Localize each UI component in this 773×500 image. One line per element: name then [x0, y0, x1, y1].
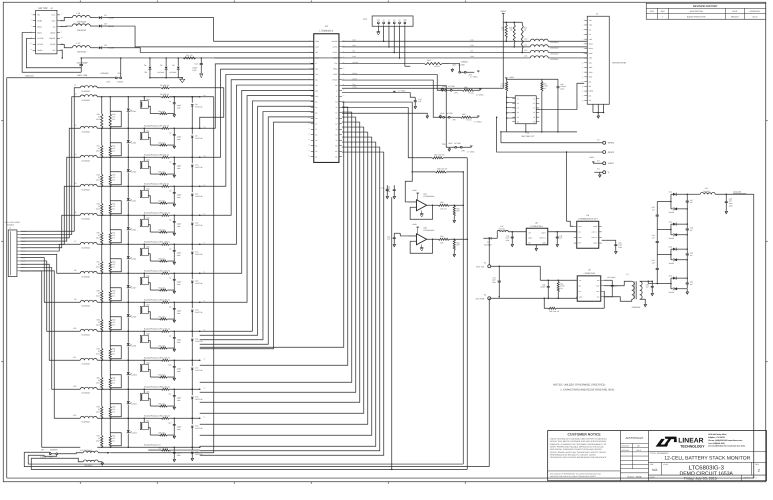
capacitor C9 100pF [169, 331, 181, 351]
svg-text:L10: L10 [73, 327, 76, 330]
svg-text:APPLICATION. COMPONENT SUBSTI: APPLICATION. COMPONENT SUBSTITUTION AND … [550, 448, 603, 451]
jumper JP3 VMODE [450, 60, 480, 78]
resistor R16 100 1% [160, 414, 200, 419]
svg-text:L4: L4 [74, 153, 76, 156]
resistor R56 33 2512 [96, 389, 103, 419]
resistor R49 33 2512 [96, 186, 103, 216]
svg-text:LTC6908IMS8-3.3 OPT: LTC6908IMS8-3.3 OPT [578, 217, 599, 220]
net labels on SPI bus [352, 38, 474, 58]
svg-text:21: 21 [308, 150, 310, 152]
svg-text:R32: R32 [434, 154, 437, 157]
svg-text:74476410: 74476410 [81, 275, 89, 278]
svg-text:2512: 2512 [96, 323, 100, 326]
svg-text:JP1: JP1 [117, 72, 120, 75]
diode D5 BAT46W [158, 57, 168, 78]
svg-text:E3: E3 [597, 159, 599, 162]
svg-text:R27 3.3k: R27 3.3k [158, 199, 165, 202]
svg-text:74476410: 74476410 [550, 58, 558, 61]
svg-text:R7 100 1%: R7 100 1% [160, 124, 169, 127]
svg-text:74476410: 74476410 [81, 130, 89, 133]
svg-text:6+ VREG: 6+ VREG [476, 93, 484, 96]
inductor L26 74476410 [31, 458, 102, 467]
svg-text:BAV99: BAV99 [669, 211, 674, 214]
svg-text:GND: GND [448, 142, 453, 145]
wire J2 CS to L16 [60, 25, 72, 28]
diode D1 RB521 [99, 14, 114, 20]
svg-text:1uF: 1uF [646, 286, 649, 289]
svg-text:~: ~ [46, 450, 47, 452]
svg-text:C20 100pF: C20 100pF [607, 276, 615, 279]
net label cell 5 [203, 212, 205, 215]
svg-text:D17: D17 [195, 366, 198, 369]
svg-text:2512: 2512 [96, 178, 100, 181]
svg-text:E6: E6 [484, 294, 486, 297]
wire gate loop cell 6 [110, 259, 121, 272]
svg-text:74476410: 74476410 [77, 29, 87, 32]
net label cell 4 [203, 183, 205, 186]
svg-text:13: 13 [582, 76, 584, 78]
svg-text:E5: E5 [484, 262, 486, 265]
svg-text:GND3: GND3 [37, 49, 42, 52]
svg-text:VREG: VREG [509, 76, 514, 79]
svg-text:Q47: Q47 [146, 303, 149, 306]
svg-text:LED1: LED1 [132, 110, 136, 113]
resistor R35 3.3k [150, 431, 174, 436]
svg-text:PGST-3B: PGST-3B [195, 253, 203, 256]
zener D10 PGST-3B [191, 157, 203, 187]
svg-text:1uF: 1uF [652, 261, 655, 264]
wire cell row L5 [97, 186, 161, 188]
svg-text:CIRCUIT BOARD LAYOUT MAY SIGNI: CIRCUIT BOARD LAYOUT MAY SIGNIFICANTLY A… [550, 451, 607, 454]
svg-text:ECO: ECO [650, 10, 655, 13]
diode D27 BAV99 pump stage 2 [669, 233, 688, 240]
capacitor C46 1uF bootstrap 3 [652, 254, 659, 283]
connector TB1 cell stack input [5, 221, 27, 277]
svg-text:16: 16 [308, 123, 310, 125]
svg-text:1: 1 [662, 15, 663, 18]
svg-text:STACK: STACK [117, 81, 124, 84]
svg-text:CIRCUIT THAT MEETS CUSTOMER-SU: CIRCUIT THAT MEETS CUSTOMER-SUPPLIED SPE… [550, 440, 607, 443]
svg-text:R26 3.3k: R26 3.3k [158, 170, 165, 173]
inductor L5 74476410 [74, 182, 97, 191]
wire TB1 last pin to row L14 [20, 271, 80, 447]
svg-text:Q40: Q40 [146, 98, 149, 101]
wire TB1 fan to lower cell rows [20, 258, 80, 419]
LED LED11 [127, 389, 137, 419]
capacitor C37 10uF [492, 266, 501, 297]
LED LED2 [127, 128, 136, 158]
jumper JP7 POWER/STACK EXT [24, 449, 58, 459]
customer notice box [548, 433, 621, 479]
svg-text:Q48: Q48 [146, 332, 149, 335]
svg-text:LED9: LED9 [132, 344, 136, 347]
svg-text:RQJ0303PGDQALT-E: RQJ0303PGDQALT-E [144, 211, 162, 214]
wire gate loop cell 11 [110, 404, 121, 417]
resistor R18 475 1% [109, 244, 115, 274]
inductor L3 74476410 [74, 124, 97, 133]
svg-text:OPT: OPT [456, 244, 459, 247]
wire GPIO2 net to JP4 [342, 75, 445, 91]
wire E5 rail to U3 [491, 266, 577, 282]
svg-text:PGST-3B: PGST-3B [195, 427, 203, 430]
svg-text:D4: D4 [144, 64, 146, 67]
svg-text:1uF: 1uF [690, 201, 693, 204]
svg-text:HS 1%: HS 1% [466, 119, 472, 122]
svg-text:1206: 1206 [386, 190, 390, 193]
inductor L7 74476410 [74, 240, 97, 249]
wire bottom bus sense [31, 458, 467, 469]
svg-text:TB1/MAX: TB1/MAX [6, 224, 14, 227]
svg-text:RQJ0303PGDQALT-E: RQJ0303PGDQALT-E [144, 356, 162, 359]
svg-text:+POWER: +POWER [100, 72, 109, 75]
svg-text:D8: D8 [195, 103, 197, 106]
capacitor C40 10uF [505, 232, 513, 247]
wire E6 ground rail [491, 297, 577, 299]
svg-text:2512: 2512 [96, 236, 100, 239]
zener D13 PGST-3B [191, 244, 203, 274]
net label cell 3 [203, 154, 206, 157]
svg-text:1206: 1206 [492, 281, 496, 284]
wire TOS net [342, 86, 455, 148]
svg-text:6+ VREG: 6+ VREG [474, 120, 482, 123]
svg-text:RA1: RA1 [427, 59, 431, 62]
svg-text:SCSCL: SCSCL [37, 43, 43, 46]
wires J1 bottom pins to ground [593, 104, 604, 118]
wire gate loop cell 5 [110, 230, 121, 243]
svg-text:LTC Confidential-For Customer: LTC Confidential-For Customer Use Only [708, 445, 746, 448]
svg-text:OPT: OPT [456, 210, 459, 213]
wire cell row L9 [97, 302, 161, 304]
terminal E5 EXT +5V [476, 262, 491, 269]
wire SPI bus SDI to J1 [342, 49, 587, 55]
svg-text:ACTIVE: ACTIVE [448, 85, 455, 88]
svg-text:220pF: 220pF [540, 286, 545, 289]
wire gate loop cell 1 [110, 111, 121, 127]
resistor R51 33 2512 [96, 244, 103, 274]
diode D24 BAV99 pump stage 1 [669, 191, 688, 196]
wire J2 GND3 to C30 [26, 38, 81, 67]
terminal E2 GPIO2 [597, 139, 615, 145]
svg-text:LINEAR: LINEAR [678, 437, 703, 444]
svg-text:GND: GND [440, 112, 445, 115]
svg-text:100 1%: 100 1% [441, 168, 447, 171]
inductor L20 [700, 187, 754, 195]
wire U5 input bus [506, 97, 515, 121]
svg-text:LED5: LED5 [132, 228, 136, 231]
svg-text:L1: L1 [74, 84, 76, 87]
svg-text:R33 3.3k: R33 3.3k [158, 373, 165, 376]
svg-text:D13: D13 [195, 250, 198, 253]
resistor R15 475 1% [109, 157, 115, 187]
svg-text:20: 20 [308, 145, 310, 147]
zener D12 PGST-3B [191, 215, 203, 245]
svg-text:CELL SPLY NODE: CELL SPLY NODE [5, 221, 21, 224]
inductor L15 [72, 12, 98, 24]
wire J2 SCK to L15 [60, 18, 72, 21]
capacitor C48 1uF stage 2 [686, 223, 693, 234]
resistor R55 33 2512 [96, 360, 103, 390]
wire pump right rail 2 [687, 234, 689, 249]
svg-text:APPROVALS: APPROVALS [625, 436, 643, 440]
svg-text:R31: R31 [440, 235, 443, 238]
resistor R27 3.3k [150, 199, 174, 204]
wire VMODE net [342, 63, 424, 65]
svg-text:EXT +5V: EXT +5V [476, 265, 485, 268]
transistor Q41 RQJ0303PGDQALT-E [140, 128, 161, 156]
svg-text:PGST-3B: PGST-3B [195, 282, 203, 285]
svg-text:74476410: 74476410 [81, 188, 89, 191]
capacitor C18 100nF [385, 185, 395, 198]
svg-text:L11: L11 [73, 356, 76, 359]
LED LED6 [127, 244, 136, 274]
wire E5 to D7 [489, 238, 491, 265]
svg-text:LED10: LED10 [132, 373, 137, 376]
svg-text:10: 10 [582, 62, 584, 64]
svg-text:1uF: 1uF [690, 254, 693, 257]
wire J2 MOSI to L17 [60, 44, 72, 47]
svg-text:SCSDA: SCSDA [37, 37, 44, 40]
wire gate loop cell 3 [110, 172, 121, 185]
svg-text:GND: GND [452, 64, 457, 67]
wire GPIO1 branch to U6 oscillator [567, 152, 574, 226]
svg-text:GPIO2: GPIO2 [608, 142, 615, 145]
svg-text:Friday, July 03, 2015: Friday, July 03, 2015 [684, 476, 717, 480]
title block frame [548, 431, 767, 481]
svg-text:74476410: 74476410 [81, 246, 89, 249]
resistor R30 10K [438, 201, 464, 211]
ground at E4 [598, 172, 601, 177]
wire VREG pullup rail above U5 [505, 76, 558, 79]
svg-text:NOTES: UNLESS OTHERWISE SPECIF: NOTES: UNLESS OTHERWISE SPECIFIED: [553, 383, 606, 386]
wire SPI bus SDO to J1 [342, 43, 587, 49]
svg-text:JW W: JW W [752, 15, 757, 18]
svg-text:JP5: JP5 [452, 118, 455, 121]
svg-text:Q49: Q49 [146, 361, 149, 364]
LED LED8 [127, 302, 136, 332]
svg-text:74476410: 74476410 [550, 47, 558, 50]
wire SPI bus CSB to J1 [342, 38, 587, 44]
svg-text:19: 19 [308, 139, 310, 141]
transistor Q40 RQJ0303PGDQALT-E [140, 97, 161, 128]
resistor R68 100 1% bottom [148, 447, 200, 451]
svg-text:16: 16 [582, 91, 584, 93]
svg-text:R12 100 1%: R12 100 1% [160, 269, 170, 272]
svg-text:2512: 2512 [96, 118, 100, 121]
svg-text:PGST-3B: PGST-3B [195, 311, 203, 314]
wire SPI bus SCK to J1 [214, 54, 587, 60]
resistor R38 100 1% [412, 168, 464, 173]
svg-text:D14: D14 [195, 279, 198, 282]
svg-text:E4: E4 [597, 168, 599, 171]
resistor R14 100 1% [160, 356, 200, 361]
svg-text:VMODE: VMODE [461, 60, 469, 63]
inductor L17 [72, 42, 98, 54]
wire J2 GND to C30 bottom [22, 33, 81, 73]
resistor R48 33 2512 [96, 157, 103, 187]
svg-text:REVISION HISTORY: REVISION HISTORY [693, 5, 718, 8]
svg-text:SCALE = NONE: SCALE = NONE [627, 476, 642, 479]
wire U5 output to J1 [536, 83, 584, 109]
svg-text:L2: L2 [74, 93, 76, 96]
wire VREG to E3 [589, 156, 602, 163]
test point header TP1 [363, 16, 413, 26]
capacitor C48 1000pF [556, 79, 566, 132]
svg-text:LED2: LED2 [132, 141, 136, 144]
svg-text:D26: D26 [669, 221, 672, 224]
svg-text:RQJ0303PGDQALT-E: RQJ0303PGDQALT-E [144, 124, 162, 127]
svg-text:R32 3.3k: R32 3.3k [158, 344, 165, 347]
svg-text:6+ VREG: 6+ VREG [467, 150, 475, 153]
inductor L8 74476410 [74, 269, 97, 278]
svg-text:D12: D12 [195, 221, 198, 224]
svg-text:PGST-3B: PGST-3B [195, 398, 203, 401]
svg-text:IC NO.: IC NO. [663, 463, 669, 466]
svg-text:L12: L12 [524, 49, 527, 52]
transistor Q49 RQJ0303PGDQALT-E [140, 360, 161, 388]
svg-text:SPI BOTTOM: SPI BOTTOM [612, 61, 626, 64]
resistor R24 3.3k [150, 110, 174, 115]
svg-text:Q50: Q50 [146, 390, 149, 393]
inductor L11 74476410 [73, 356, 97, 365]
svg-text:Q42: Q42 [146, 158, 149, 161]
LED LED1 [127, 97, 136, 129]
svg-text:R29 3.3k: R29 3.3k [158, 257, 165, 260]
diode D25 BAV99 pump stage 1 [669, 207, 688, 214]
wire gate loop cell 8 [110, 317, 121, 330]
diode D7 BAT46W [483, 237, 497, 247]
svg-text:LT1790ACS6-4: LT1790ACS6-4 [530, 225, 543, 228]
LED LED7 [127, 273, 136, 303]
net label cell 9 [203, 328, 205, 331]
svg-text:L12: L12 [73, 385, 76, 388]
wire gate loop cell 12 [110, 433, 121, 446]
inductor L16 [72, 22, 98, 32]
diode D29 BAV99 pump stage 3 [669, 258, 688, 265]
wire pump right rail 3 [687, 259, 689, 278]
svg-text:1uF: 1uF [690, 229, 693, 232]
svg-text:R31 3.3k: R31 3.3k [158, 315, 165, 318]
capacitor C49 1uF stage 3 [686, 248, 693, 259]
svg-text:PGST-3B: PGST-3B [195, 195, 203, 198]
svg-text:Fax: (408)434-0507: Fax: (408)434-0507 [708, 442, 725, 445]
IC U6 LTC6908 oscillator [574, 214, 602, 248]
svg-text:PA2364NL: PA2364NL [632, 306, 641, 309]
transistor Q50 RQJ0303PGDQALT-E [140, 389, 161, 417]
svg-text:SUPPLIED FOR USE WITH LINEAR T: SUPPLIED FOR USE WITH LINEAR TECHNOLOGY … [550, 475, 597, 478]
IC U1 LTC6803G-3 body [308, 34, 344, 163]
wire SDO net from D3 to U1 [110, 48, 314, 53]
svg-text:DATE: DATE [732, 10, 738, 13]
wire cell row L4 [97, 157, 161, 159]
svg-text:D15: D15 [195, 308, 198, 311]
capacitor C44 1uF bootstrap 2 [652, 229, 659, 254]
svg-text:JP6: JP6 [461, 150, 464, 153]
svg-text:LED8: LED8 [132, 315, 136, 318]
resistor R31 10K [438, 235, 468, 245]
svg-text:L9: L9 [74, 298, 76, 301]
net label cell 11 [203, 386, 205, 389]
svg-text:DATE:: DATE: [650, 476, 656, 479]
resistor R15 100 1% [160, 385, 200, 390]
svg-text:R16 100 1%: R16 100 1% [160, 385, 170, 388]
terminal E1 GPIO1 [603, 151, 615, 154]
svg-text:39: 39 [343, 68, 345, 70]
svg-text:TECHNOLOGY APPLICATIONS ENGINE: TECHNOLOGY APPLICATIONS ENGINEERING FOR … [550, 456, 607, 459]
resistor R54 33 2512 [96, 331, 103, 361]
svg-text:EXT RTN: EXT RTN [476, 297, 485, 300]
svg-text:L13: L13 [524, 54, 527, 57]
connector J1 SPI BOTTOM [582, 12, 626, 104]
svg-text:Milpitas, CA 95035: Milpitas, CA 95035 [708, 436, 725, 439]
svg-text:PGST-3B: PGST-3B [195, 166, 203, 169]
resistor R33 3.3k [150, 373, 174, 378]
svg-text:R30: R30 [440, 201, 443, 204]
capacitor C4 100pF [169, 186, 181, 206]
capacitor C13 100pF [192, 57, 203, 78]
resistor R5 100 1% row L1 [160, 84, 224, 89]
svg-text:R4: R4 [186, 54, 188, 57]
wire T4 secondary to ladder [640, 281, 653, 283]
svg-text:74476410: 74476410 [84, 464, 92, 467]
capacitor C35 1uF [646, 281, 654, 295]
diode D30 BAV99 pump stage 4 [669, 275, 688, 280]
wire to U2A input [405, 171, 413, 202]
zener D11 PGST-3B [191, 186, 203, 216]
LED LED5 [127, 215, 136, 245]
svg-text:6+ VREG: 6+ VREG [470, 75, 478, 78]
svg-text:PGST-3B: PGST-3B [195, 340, 203, 343]
wire ANALOG net right side loop [7, 191, 754, 478]
resistor R40 OPT [453, 239, 460, 257]
svg-text:R10 100 1%: R10 100 1% [160, 211, 170, 214]
svg-text:R38: R38 [437, 168, 440, 171]
svg-text:6+ VREG: 6+ VREG [398, 89, 406, 92]
svg-text:BAV99: BAV99 [669, 237, 674, 240]
wire op-amp ground riser to bottom bus [391, 197, 393, 470]
svg-text:7447664: 7447664 [703, 190, 710, 193]
svg-text:D2: D2 [104, 22, 106, 25]
resistor R32 3.3k [150, 344, 174, 349]
wire cell row L3 [97, 128, 161, 130]
resistor R47 33 2512 [96, 128, 103, 158]
zener D4 70V [144, 57, 152, 78]
resistor R13 475 1% [109, 97, 115, 129]
resistor R34 3.3k [150, 402, 174, 407]
wire pump right rail 1 [687, 208, 689, 224]
transistor Q42 RQJ0303PGDQALT-E [140, 157, 161, 185]
svg-text:THIS CIRCUIT IS PROPRIETARY TO: THIS CIRCUIT IS PROPRIETARY TO LINEAR TE… [550, 473, 602, 476]
wire VTEMP2 to sense line [342, 108, 415, 158]
capacitor C41 1uF [556, 232, 563, 247]
diode D26 BAV99 pump stage 2 [669, 221, 688, 226]
wire VTEMP to op-amp [342, 102, 412, 172]
diode D3 RB521 [99, 44, 114, 50]
svg-text:GND2: GND2 [50, 31, 55, 34]
svg-text:BAV99: BAV99 [669, 291, 674, 294]
zener D9 PGST-3B [191, 128, 203, 158]
svg-text:L7: L7 [74, 240, 76, 243]
svg-text:2512: 2512 [96, 149, 100, 152]
svg-text:74476410: 74476410 [81, 391, 89, 394]
capacitor C7 100pF [169, 273, 181, 293]
zener D8 PGST-3B [191, 97, 203, 129]
svg-text:BAT46W: BAT46W [484, 244, 491, 247]
zener D19 PGST-3B [191, 418, 203, 448]
svg-text:2512: 2512 [96, 207, 100, 210]
wire CSBI net from D1 to U1 [110, 18, 314, 42]
capacitor C30 1000pF 630V [77, 57, 89, 77]
svg-text:RQJ0303PGDQALT-E: RQJ0303PGDQALT-E [144, 414, 162, 417]
